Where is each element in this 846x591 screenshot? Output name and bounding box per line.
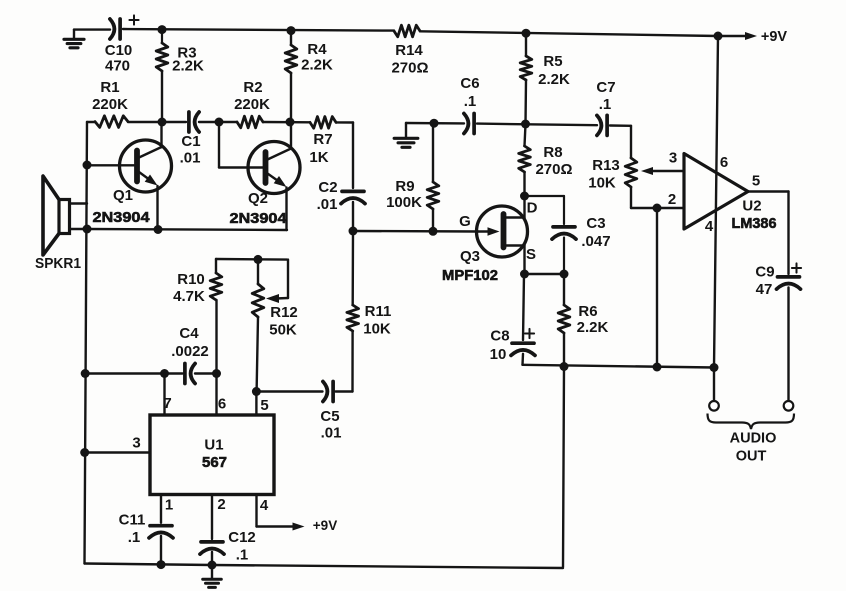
svg-text:47: 47 <box>756 281 773 298</box>
svg-text:R8: R8 <box>543 144 562 161</box>
svg-text:.1: .1 <box>599 96 612 113</box>
svg-text:.1: .1 <box>236 546 249 563</box>
svg-text:2.2K: 2.2K <box>172 57 204 74</box>
svg-text:10K: 10K <box>588 174 616 191</box>
svg-text:7: 7 <box>163 395 171 412</box>
svg-text:1: 1 <box>165 496 173 513</box>
svg-text:.0022: .0022 <box>171 343 209 360</box>
svg-text:10: 10 <box>490 346 507 363</box>
svg-text:R6: R6 <box>578 303 597 320</box>
svg-text:Q2: Q2 <box>248 190 268 207</box>
svg-text:R7: R7 <box>313 131 332 148</box>
svg-text:270Ω: 270Ω <box>535 161 572 178</box>
svg-text:220K: 220K <box>92 96 128 113</box>
svg-text:2N3904: 2N3904 <box>230 210 288 227</box>
svg-text:6: 6 <box>720 154 728 171</box>
svg-text:3: 3 <box>669 149 677 166</box>
svg-text:.01: .01 <box>317 196 338 213</box>
svg-text:567: 567 <box>202 454 227 471</box>
svg-text:C3: C3 <box>586 215 605 232</box>
svg-text:+9V: +9V <box>313 518 337 533</box>
svg-text:R5: R5 <box>543 53 562 70</box>
svg-text:2.2K: 2.2K <box>301 56 333 73</box>
svg-text:C9: C9 <box>755 263 774 280</box>
svg-text:6: 6 <box>218 395 226 412</box>
svg-text:C4: C4 <box>179 325 199 342</box>
svg-text:2: 2 <box>668 191 676 208</box>
svg-text:2: 2 <box>217 496 225 513</box>
svg-text:C10: C10 <box>105 42 133 59</box>
svg-text:.1: .1 <box>464 93 477 110</box>
svg-text:C8: C8 <box>490 327 509 344</box>
svg-text:2.2K: 2.2K <box>577 319 609 336</box>
svg-text:R9: R9 <box>395 178 414 195</box>
svg-text:C12: C12 <box>228 529 256 546</box>
svg-text:Q3: Q3 <box>460 248 480 265</box>
svg-text:5: 5 <box>260 397 268 414</box>
svg-text:C11: C11 <box>119 511 146 528</box>
svg-text:R12: R12 <box>270 304 298 321</box>
svg-text:100K: 100K <box>386 194 422 211</box>
svg-text:470: 470 <box>105 57 130 74</box>
svg-text:U1: U1 <box>204 436 223 453</box>
svg-text:D: D <box>527 199 538 216</box>
svg-text:R2: R2 <box>243 79 262 96</box>
svg-text:4.7K: 4.7K <box>173 288 205 305</box>
svg-text:C5: C5 <box>320 408 339 425</box>
svg-text:.1: .1 <box>128 529 141 546</box>
svg-text:+9V: +9V <box>761 29 788 45</box>
svg-text:50K: 50K <box>269 321 297 338</box>
svg-text:AUDIO: AUDIO <box>730 430 777 446</box>
svg-text:R14: R14 <box>395 42 423 59</box>
svg-text:C2: C2 <box>318 179 337 196</box>
svg-text:G: G <box>459 213 471 230</box>
svg-text:R4: R4 <box>307 41 327 58</box>
svg-text:S: S <box>526 246 536 263</box>
svg-text:220K: 220K <box>234 96 270 113</box>
svg-text:270Ω: 270Ω <box>391 59 428 76</box>
svg-text:C7: C7 <box>596 79 615 96</box>
svg-text:U2: U2 <box>742 197 761 214</box>
svg-text:2.2K: 2.2K <box>538 71 570 88</box>
svg-text:R10: R10 <box>177 271 205 288</box>
svg-text:.01: .01 <box>180 149 201 166</box>
svg-text:OUT: OUT <box>736 448 767 464</box>
svg-text:.01: .01 <box>321 424 342 441</box>
svg-text:4: 4 <box>705 218 714 235</box>
svg-text:MPF102: MPF102 <box>442 267 498 284</box>
svg-text:3: 3 <box>132 434 140 451</box>
svg-text:2N3904: 2N3904 <box>93 209 151 226</box>
svg-text:LM386: LM386 <box>732 215 777 232</box>
svg-text:C6: C6 <box>460 75 479 92</box>
svg-text:Q1: Q1 <box>113 187 133 204</box>
svg-text:1K: 1K <box>309 149 328 166</box>
svg-text:C1: C1 <box>181 133 200 150</box>
svg-text:R11: R11 <box>365 303 392 320</box>
svg-text:SPKR1: SPKR1 <box>35 255 81 272</box>
svg-text:R13: R13 <box>592 157 620 174</box>
svg-text:R1: R1 <box>100 79 119 96</box>
svg-text:5: 5 <box>752 172 760 189</box>
svg-text:4: 4 <box>260 497 269 514</box>
svg-text:10K: 10K <box>363 320 391 337</box>
svg-text:.047: .047 <box>581 233 610 250</box>
